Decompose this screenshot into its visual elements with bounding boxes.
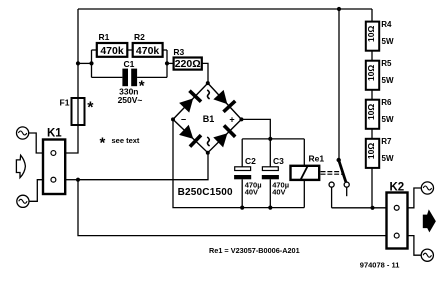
wire minus rail xyxy=(173,119,304,209)
svg-text:+: + xyxy=(229,114,234,124)
wire node branch left xyxy=(76,50,97,77)
resistor R6 xyxy=(366,98,394,129)
svg-text:40V: 40V xyxy=(272,188,285,197)
svg-text:R2: R2 xyxy=(134,32,145,42)
wire switch feed xyxy=(338,9,340,159)
wire K1 bottom terminal row xyxy=(43,179,65,181)
svg-text:*: * xyxy=(87,100,94,117)
AC source top-left xyxy=(17,127,29,139)
svg-text:C1: C1 xyxy=(124,59,135,69)
svg-text:10Ω: 10Ω xyxy=(366,104,376,120)
svg-text:5W: 5W xyxy=(382,154,394,163)
wire R5-R6 xyxy=(371,90,373,100)
wire plus rail xyxy=(242,138,304,140)
wire K1 to junction xyxy=(65,179,78,181)
svg-text:C2: C2 xyxy=(245,156,256,166)
resistor R3 xyxy=(173,47,201,70)
svg-text:−: − xyxy=(181,114,186,124)
svg-text:10Ω: 10Ω xyxy=(366,143,376,159)
wire top rail xyxy=(78,8,372,10)
node K1 bottom junction xyxy=(76,178,80,182)
mechanical link dashes xyxy=(321,172,343,175)
wire switch contact to rail xyxy=(331,187,333,208)
wire K2 bottom terminal row xyxy=(387,235,408,237)
svg-text:R3: R3 xyxy=(173,47,184,57)
wire K2 to AC top-right xyxy=(408,188,422,208)
wire AC1 to K1 xyxy=(29,133,43,153)
svg-text:470k: 470k xyxy=(136,45,160,57)
svg-text:Re1 = V23057-B0006-A201: Re1 = V23057-B0006-A201 xyxy=(209,246,300,255)
svg-text:R5: R5 xyxy=(381,59,392,68)
relay switch contact xyxy=(329,158,349,196)
wire K1 to fuse xyxy=(65,125,78,153)
bridge B1 xyxy=(171,81,243,198)
wire K2 top terminal row xyxy=(387,207,408,209)
resistor R4 xyxy=(366,20,394,51)
svg-text:R1: R1 xyxy=(99,32,110,42)
connector K2 xyxy=(387,182,408,249)
svg-text:974078 - 11: 974078 - 11 xyxy=(360,260,400,269)
input arrow xyxy=(16,155,25,178)
wire to bridge bottom xyxy=(78,153,208,180)
capacitor C2 xyxy=(234,156,261,208)
capacitor C1 xyxy=(92,59,168,105)
diode B1 top-right xyxy=(213,89,237,113)
svg-text:R6: R6 xyxy=(381,98,392,107)
resistor R1 xyxy=(97,32,128,57)
diode B1 top-left xyxy=(178,89,202,113)
wire to R4 xyxy=(371,9,373,22)
svg-text:C3: C3 xyxy=(273,156,284,166)
wire R3 left xyxy=(167,62,174,64)
relay Re1 xyxy=(291,139,325,208)
wire rail to K2 top xyxy=(332,207,387,209)
node C3 top junction xyxy=(268,137,272,141)
svg-text:*: * xyxy=(139,78,145,95)
svg-text:F1: F1 xyxy=(60,98,70,108)
svg-text:5W: 5W xyxy=(382,115,394,124)
svg-text:*: * xyxy=(100,135,106,152)
svg-text:5W: 5W xyxy=(382,76,394,85)
node R2/C1/R3 junction xyxy=(165,61,169,65)
svg-text:K2: K2 xyxy=(390,182,405,194)
node top junction xyxy=(337,7,341,11)
see text note xyxy=(100,135,140,152)
svg-text:B250C1500: B250C1500 xyxy=(178,187,233,198)
svg-text:see text: see text xyxy=(112,136,140,145)
wire AC2 to K1 xyxy=(29,180,43,202)
AC source bottom-left xyxy=(17,195,29,207)
wire R1-R2 xyxy=(127,49,132,51)
wire C2 top drop xyxy=(241,139,243,167)
wire R4-R5 xyxy=(371,51,373,61)
AC source top-right xyxy=(421,182,433,194)
svg-text:220Ω: 220Ω xyxy=(175,58,201,70)
output arrow xyxy=(423,210,435,231)
diode B1 bottom-right xyxy=(213,124,237,148)
svg-text:Re1: Re1 xyxy=(309,154,325,164)
wire K1 top terminal row xyxy=(43,152,65,154)
resistor R7 xyxy=(366,137,394,168)
svg-text:470k: 470k xyxy=(100,45,124,57)
wire R7 to bottom node xyxy=(371,168,373,208)
svg-text:5W: 5W xyxy=(382,37,394,46)
wire R3 to bridge top xyxy=(202,63,208,83)
svg-text:40V: 40V xyxy=(245,188,258,197)
AC source bottom-right xyxy=(421,249,433,261)
wire R6-R7 xyxy=(371,129,373,139)
node R7/K2 junction xyxy=(370,206,374,210)
wire R2 right drop xyxy=(163,50,167,77)
svg-text:250V~: 250V~ xyxy=(118,95,143,105)
svg-text:10Ω: 10Ω xyxy=(366,25,376,41)
svg-text:R7: R7 xyxy=(381,137,392,146)
capacitor C3 xyxy=(262,139,289,208)
connector K1 xyxy=(43,128,65,195)
wire K2 to AC bottom-right xyxy=(408,236,422,256)
resistor R2 xyxy=(133,32,163,57)
svg-text:K1: K1 xyxy=(47,128,62,140)
svg-text:B1: B1 xyxy=(203,114,215,124)
wire bottom rail xyxy=(78,180,387,236)
svg-text:R4: R4 xyxy=(381,20,392,29)
resistor R5 xyxy=(366,59,394,90)
diode B1 bottom-left xyxy=(178,124,202,148)
wire left rail xyxy=(77,9,79,98)
svg-text:10Ω: 10Ω xyxy=(366,65,376,81)
fuse F1 xyxy=(60,98,95,126)
wire bridge plus output xyxy=(241,119,270,138)
